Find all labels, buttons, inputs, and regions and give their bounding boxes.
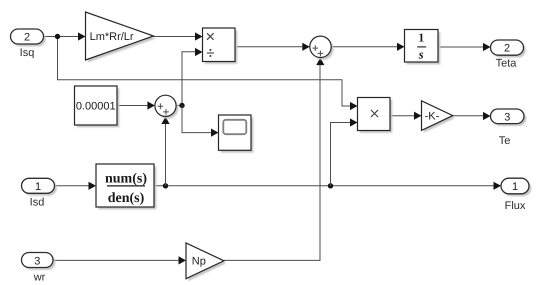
arrowhead Np gain input bbox=[179, 256, 187, 264]
svg-text:s: s bbox=[418, 47, 424, 61]
svg-text:Isd: Isd bbox=[30, 197, 45, 209]
wire wr port to Np gain bbox=[53, 259, 180, 261]
arrowhead integrator input bbox=[397, 43, 405, 51]
wire Isq branch down-right-down to product2 bbox=[58, 37, 352, 107]
svg-text:3: 3 bbox=[34, 256, 40, 268]
arrowhead Te port input bbox=[483, 112, 491, 120]
svg-text:wr: wr bbox=[33, 272, 46, 284]
gain -K- bbox=[422, 101, 456, 133]
svg-text:Flux: Flux bbox=[505, 200, 526, 212]
arrowhead transfer fcn input bbox=[89, 182, 97, 190]
wire gain -K- to Te port bbox=[453, 115, 484, 117]
wire sum2 output up to product1 divide input bbox=[182, 52, 196, 106]
arrowhead scope input bbox=[211, 129, 219, 137]
wire sum1 to integrator bbox=[331, 46, 398, 48]
product U1 (multiply-divide) bbox=[203, 28, 238, 64]
scope bbox=[219, 115, 254, 153]
svg-text:1: 1 bbox=[512, 181, 518, 193]
wire product1 to sum1 bbox=[235, 46, 303, 48]
wire flux junction B up to product2 second input bbox=[331, 123, 352, 186]
arrowhead product1 input 1 bbox=[195, 32, 203, 40]
wire Np gain up to sum1 south input bbox=[224, 64, 320, 260]
arrowhead into gain Lm*Rr/Lr bbox=[78, 32, 86, 40]
wire junction down to scope bbox=[182, 106, 212, 133]
node sum2 output junction bbox=[179, 103, 184, 108]
svg-text:Lm*Rr/Lr: Lm*Rr/Lr bbox=[90, 31, 134, 43]
product U2 (multiply) bbox=[358, 98, 393, 133]
inport 2 Isq bbox=[11, 29, 46, 59]
svg-text:den(s): den(s) bbox=[108, 191, 145, 206]
svg-text:Teta: Teta bbox=[496, 58, 518, 70]
sum S1 (plus plus) bbox=[310, 36, 334, 60]
inport 1 Isd bbox=[22, 178, 57, 208]
arrowhead product2 input 1 bbox=[350, 102, 358, 110]
svg-text:Np: Np bbox=[192, 255, 206, 267]
wire integrator to Teta port bbox=[438, 46, 484, 48]
wire product2 to gain -K- bbox=[390, 115, 415, 117]
sum S2 (plus plus) bbox=[155, 95, 179, 119]
svg-text:2: 2 bbox=[504, 43, 510, 55]
wire Isd port to transfer fcn bbox=[55, 185, 91, 187]
arrowhead sum2 west input bbox=[147, 101, 155, 109]
outport 1 Flux bbox=[501, 178, 531, 212]
svg-text:2: 2 bbox=[24, 32, 30, 44]
node flux junction B bbox=[328, 183, 333, 188]
arrowhead product1 input 2 bbox=[195, 48, 203, 56]
arrowhead Flux port input bbox=[494, 182, 502, 190]
arrowhead Teta port input bbox=[483, 43, 491, 51]
wire gain to product1 bbox=[154, 36, 197, 38]
wire flux junction A up to sum2 south input bbox=[165, 123, 167, 186]
svg-text:Te: Te bbox=[499, 135, 511, 147]
svg-text:1: 1 bbox=[35, 181, 41, 193]
arrowhead gain -K- input bbox=[414, 112, 422, 120]
svg-text:3: 3 bbox=[504, 111, 510, 123]
arrowhead product2 input 2 bbox=[350, 118, 358, 126]
wire constant to sum2 bbox=[117, 105, 149, 107]
outport 2 Teta bbox=[491, 40, 526, 70]
arrowhead sum1 west input bbox=[302, 43, 310, 51]
arrowhead sum2 south input bbox=[161, 117, 169, 125]
node flux junction A bbox=[163, 183, 168, 188]
wire flux line transfer fcn to Flux port bbox=[154, 185, 495, 187]
gain Np bbox=[186, 243, 226, 281]
wire sum2 to junction bbox=[176, 105, 182, 107]
wire Isq port to gain bbox=[44, 36, 80, 38]
integrator 1/s bbox=[405, 30, 441, 65]
svg-text:0.00001: 0.00001 bbox=[76, 101, 116, 113]
inport 3 wr bbox=[22, 253, 56, 284]
outport 3 Te bbox=[491, 109, 527, 147]
svg-text:num(s): num(s) bbox=[105, 172, 147, 187]
transfer fcn num(s)/den(s) bbox=[96, 164, 156, 209]
svg-text:-K-: -K- bbox=[425, 111, 440, 123]
node Isq junction bbox=[55, 34, 60, 39]
svg-text:Isq: Isq bbox=[20, 47, 35, 59]
gain Lm*Rr/Lr bbox=[86, 12, 156, 63]
arrowhead sum1 south input bbox=[316, 58, 324, 66]
constant 0.00001 bbox=[75, 86, 120, 127]
svg-text:1: 1 bbox=[418, 30, 424, 44]
